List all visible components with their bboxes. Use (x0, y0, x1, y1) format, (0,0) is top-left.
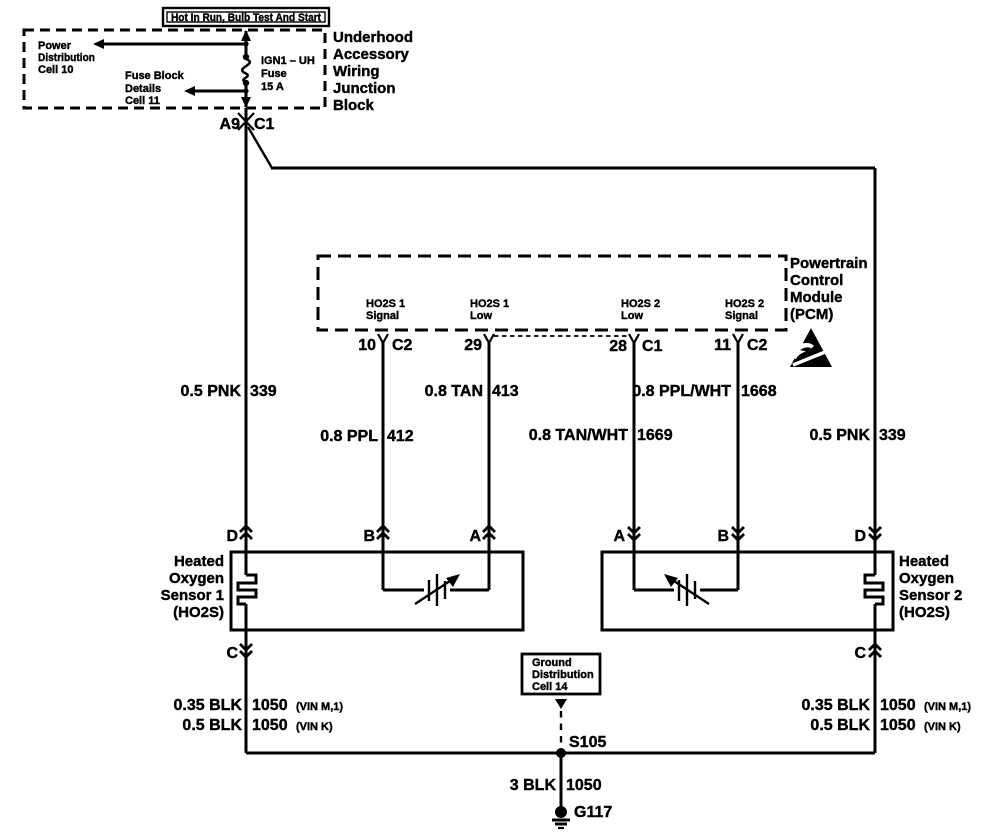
svg-text:Details: Details (125, 83, 161, 95)
label: 0.5 BLK 1050 (VIN K) right (810, 717, 961, 734)
svg-text:Hot In Run, Bulb Test And Star: Hot In Run, Bulb Test And Start (171, 12, 321, 24)
svg-text:Oxygen: Oxygen (169, 570, 224, 587)
wire: 0.5 PNK 339 left branch down to HO2S1 pin D (245, 108, 248, 552)
svg-text:15 A: 15 A (261, 81, 284, 93)
svg-text:IGN1 – UH: IGN1 – UH (261, 55, 315, 67)
wire: feed from Hot In Run into junction block (arrow up) (241, 30, 251, 57)
svg-text:0.5 BLK: 0.5 BLK (810, 717, 870, 734)
svg-text:0.35 BLK: 0.35 BLK (802, 697, 871, 714)
svg-text:Cell 10: Cell 10 (38, 64, 73, 76)
underhood accessory wiring junction block (dashed box) (24, 30, 325, 108)
svg-text:Heated: Heated (174, 553, 224, 570)
wire: 0.8 PPL/WHT 1668 pin11 to HO2S2 B (737, 343, 740, 552)
svg-text:D: D (854, 528, 866, 545)
sensing element HO2S2 (variable cell with arrow) (634, 552, 738, 606)
svg-text:C1: C1 (642, 338, 663, 355)
svg-text:11: 11 (714, 337, 731, 354)
svg-text:Control: Control (790, 272, 843, 289)
svg-text:412: 412 (387, 428, 414, 445)
svg-text:(VIN M,1): (VIN M,1) (296, 701, 343, 713)
svg-text:Cell 14: Cell 14 (532, 681, 568, 693)
svg-text:Block: Block (333, 97, 375, 114)
svg-text:0.8 PPL/WHT: 0.8 PPL/WHT (632, 383, 731, 400)
svg-text:Low: Low (621, 310, 643, 322)
heater element HO2S1 (238, 552, 256, 630)
svg-text:Signal: Signal (366, 310, 399, 322)
svg-text:C: C (854, 645, 866, 662)
label: Power Distribution Cell 10 (38, 40, 95, 76)
label: Underhood Accessory Wiring Junction Block (333, 29, 413, 114)
wire: 0.8 PPL 412 pin10 to HO2S1 B (382, 343, 385, 552)
svg-text:0.5 PNK: 0.5 PNK (181, 383, 242, 400)
wire: dashed reference to ground distribution (555, 699, 567, 751)
label: 0.8 TAN 413 (425, 383, 519, 400)
fuse IGN1-UH 15A (242, 54, 250, 86)
label: pin HO2S 2 Signal (725, 298, 764, 322)
wire: 3 BLK 1050 to ground (560, 753, 563, 807)
label: 0.8 PPL/WHT 1668 (632, 383, 776, 400)
svg-text:Low: Low (470, 310, 492, 322)
svg-text:Distribution: Distribution (532, 669, 594, 681)
label: Fuse Block Details Cell 11 (125, 70, 185, 107)
label: 0.35 BLK 1050 (VIN M,1) left (174, 697, 344, 714)
svg-text:1669: 1669 (637, 427, 673, 444)
sensing element HO2S1 (variable cell with arrow) (383, 552, 489, 606)
svg-text:Accessory: Accessory (333, 46, 410, 63)
label: IGN1-UH Fuse 15 A (261, 55, 315, 93)
label: Heated Oxygen Sensor 1 (HO2S) (161, 553, 224, 621)
label: 0.8 PPL 412 (320, 428, 414, 445)
svg-text:Module: Module (790, 289, 843, 306)
pin 11 C2 (female terminal) (714, 334, 767, 354)
svg-text:Cell 11: Cell 11 (125, 95, 160, 107)
wire: 0.8 TAN/WHT 1669 pin28 to HO2S2 A (633, 343, 636, 552)
connector HO2S2 pin A (chevrons down) (613, 527, 640, 545)
svg-text:Oxygen: Oxygen (899, 570, 954, 587)
svg-text:1050: 1050 (880, 697, 916, 714)
svg-text:Fuse: Fuse (261, 68, 287, 80)
wire: diagonal branch from A9 C1 splice (248, 127, 272, 168)
svg-text:1050: 1050 (252, 697, 288, 714)
node label box "Hot In Run, Bulb Test And Start" (163, 8, 329, 26)
svg-text:Wiring: Wiring (333, 63, 380, 80)
wire: fuse output down (arrow down out of block) (241, 83, 251, 108)
connector HO2S1 pin D (chevrons up) (226, 526, 252, 545)
svg-text:C2: C2 (392, 337, 413, 354)
label: 0.5 PNK 339 (left) (181, 383, 277, 400)
svg-text:0.5 BLK: 0.5 BLK (182, 717, 242, 734)
svg-text:Fuse Block: Fuse Block (125, 70, 185, 82)
svg-text:Sensor 1: Sensor 1 (161, 587, 224, 604)
label: pin HO2S 1 Signal (366, 298, 405, 322)
connector HO2S2 pin B (chevrons down) (717, 527, 744, 545)
svg-text:3 BLK: 3 BLK (510, 777, 557, 794)
svg-text:D: D (226, 528, 238, 545)
svg-text:B: B (363, 528, 375, 545)
connector HO2S1 pin A (chevrons up) (469, 526, 495, 545)
svg-text:G117: G117 (574, 804, 612, 821)
svg-text:339: 339 (879, 427, 906, 444)
svg-text:1050: 1050 (566, 777, 602, 794)
svg-text:1050: 1050 (252, 717, 288, 734)
label: Powertrain Control Module (PCM) (790, 255, 868, 323)
svg-text:Signal: Signal (725, 310, 758, 322)
label: Heated Oxygen Sensor 2 (HO2S) (899, 553, 962, 621)
svg-text:Sensor 2: Sensor 2 (899, 587, 962, 604)
svg-text:Heated: Heated (899, 553, 949, 570)
pin 10 C2 (female terminal) (358, 334, 412, 354)
heated oxygen sensor 2 box (602, 552, 893, 630)
svg-text:(HO2S): (HO2S) (173, 604, 224, 621)
ESD sensitive symbol (790, 328, 835, 367)
label: 0.35 BLK 1050 (VIN M,1) right (802, 697, 972, 714)
connector HO2S2 pin D (chevrons down) (854, 527, 881, 545)
svg-text:(PCM): (PCM) (790, 306, 833, 323)
svg-text:A: A (469, 528, 481, 545)
connector HO2S2 pin C (chevrons up) (854, 630, 881, 753)
ground distribution cell 14 box (522, 654, 600, 694)
wire: top horizontal run to right side (271, 167, 875, 170)
label: pin HO2S 2 Low (621, 298, 660, 322)
svg-text:(VIN K): (VIN K) (296, 721, 333, 733)
svg-text:S105: S105 (569, 734, 606, 751)
svg-text:413: 413 (492, 383, 519, 400)
svg-text:Distribution: Distribution (38, 52, 95, 64)
svg-text:339: 339 (250, 383, 277, 400)
svg-text:HO2S 1: HO2S 1 (366, 298, 405, 310)
svg-text:C: C (226, 645, 238, 662)
svg-text:10: 10 (358, 337, 376, 354)
label: 3 BLK 1050 (510, 777, 602, 794)
wire: 0.5 PNK 339 right branch down to HO2S2 pin D (874, 168, 877, 552)
svg-text:HO2S 1: HO2S 1 (470, 298, 509, 310)
svg-text:HO2S 2: HO2S 2 (725, 298, 764, 310)
connector HO2S1 pin C (chevrons down) (226, 630, 252, 753)
pin 29 (female terminal) (464, 334, 494, 354)
heated oxygen sensor 1 box (231, 552, 523, 630)
label: pin HO2S 1 Low (470, 298, 509, 322)
wire: branch arrow to Fuse Block Details (184, 86, 249, 96)
svg-text:A: A (613, 528, 625, 545)
svg-text:0.35 BLK: 0.35 BLK (174, 697, 243, 714)
svg-text:Underhood: Underhood (333, 29, 413, 46)
label: 0.8 TAN/WHT 1669 (529, 427, 673, 444)
wire: branch arrow to Power Distribution (93, 39, 249, 49)
svg-text:1050: 1050 (880, 717, 916, 734)
svg-text:Ground: Ground (532, 657, 572, 669)
svg-text:Powertrain: Powertrain (790, 255, 868, 272)
svg-text:28: 28 (609, 338, 627, 355)
label: 0.5 PNK 339 (right) (810, 427, 906, 444)
internal PCM dashed link pins 29-28 (494, 335, 628, 337)
svg-text:0.8 PPL: 0.8 PPL (320, 428, 378, 445)
svg-text:Junction: Junction (333, 80, 396, 97)
svg-text:1668: 1668 (741, 383, 777, 400)
splice S105 (556, 734, 606, 758)
ground G117 (552, 804, 612, 828)
label: 0.5 BLK 1050 (VIN K) left (182, 717, 333, 734)
svg-text:C1: C1 (254, 116, 275, 133)
wire: 0.8 TAN 413 pin29 to HO2S1 A (488, 343, 491, 552)
pin 28 C1 (female terminal) (609, 334, 662, 355)
connector HO2S1 pin B (chevrons up) (363, 526, 389, 545)
svg-text:(HO2S): (HO2S) (899, 604, 950, 621)
svg-text:29: 29 (464, 337, 482, 354)
svg-text:(VIN K): (VIN K) (924, 721, 961, 733)
svg-text:HO2S 2: HO2S 2 (621, 298, 660, 310)
svg-text:0.5 PNK: 0.5 PNK (810, 427, 871, 444)
wire: bottom ground bus (246, 752, 875, 755)
svg-text:0.8 TAN: 0.8 TAN (425, 383, 483, 400)
heater element HO2S2 (865, 552, 883, 630)
svg-text:0.8 TAN/WHT: 0.8 TAN/WHT (529, 427, 628, 444)
svg-text:C2: C2 (747, 337, 768, 354)
svg-text:B: B (717, 528, 729, 545)
svg-text:(VIN M,1): (VIN M,1) (924, 701, 971, 713)
powertrain control module PCM (dashed box) (318, 256, 786, 330)
connector C1 terminal A9 (X splice symbol) (220, 113, 275, 133)
svg-text:A9: A9 (220, 116, 241, 133)
svg-text:Power: Power (38, 40, 72, 52)
